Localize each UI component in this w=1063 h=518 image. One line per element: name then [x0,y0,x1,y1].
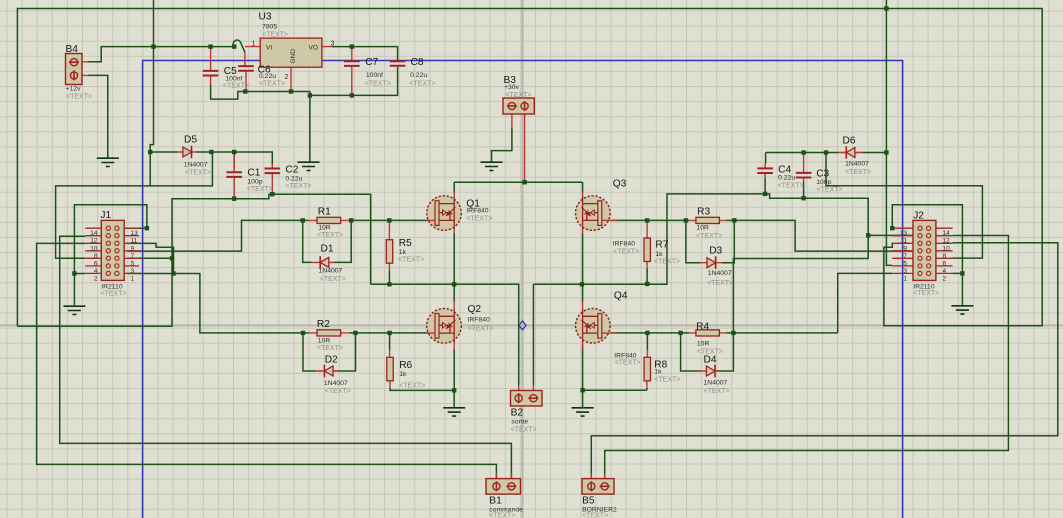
svg-text:2: 2 [94,275,98,282]
svg-text:C3: C3 [816,169,829,180]
svg-text:1k: 1k [399,249,407,256]
svg-text:GND: GND [290,49,297,64]
svg-text:<TEXT>: <TEXT> [399,383,425,390]
svg-text:C1: C1 [247,168,260,179]
svg-text:1N4007: 1N4007 [704,380,728,387]
svg-text:VI: VI [266,45,272,52]
svg-text:1N4007: 1N4007 [184,162,208,169]
svg-text:11: 11 [900,238,907,245]
svg-text:<TEXT>: <TEXT> [466,216,492,223]
svg-text:12: 12 [90,238,98,245]
svg-text:<TEXT>: <TEXT> [223,83,249,90]
svg-text:1k: 1k [399,371,407,378]
svg-text:0.22u: 0.22u [259,73,276,80]
svg-text:14: 14 [943,230,951,237]
svg-text:R5: R5 [399,238,412,249]
svg-text:100nf: 100nf [366,72,383,79]
svg-text:2: 2 [943,275,947,282]
svg-text:<TEXT>: <TEXT> [696,233,722,240]
svg-text:sortie: sortie [511,419,528,426]
svg-text:IRF840: IRF840 [613,241,636,248]
svg-text:IRF840: IRF840 [466,208,489,215]
svg-text:J1: J1 [100,210,111,221]
svg-text:13: 13 [131,230,139,237]
svg-text:D5: D5 [184,135,197,146]
svg-text:U3: U3 [259,12,272,23]
svg-text:0.22u: 0.22u [410,72,427,79]
svg-text:<TEXT>: <TEXT> [247,186,273,193]
svg-text:1N4007: 1N4007 [324,380,348,387]
svg-text:<TEXT>: <TEXT> [66,94,92,101]
svg-text:1N4007: 1N4007 [319,268,343,275]
svg-text:1: 1 [252,41,256,48]
svg-text:R2: R2 [317,319,330,330]
svg-text:7805: 7805 [262,24,277,31]
svg-text:<TEXT>: <TEXT> [505,92,531,99]
svg-text:<TEXT>: <TEXT> [582,513,608,518]
svg-text:12: 12 [943,238,951,245]
svg-text:<TEXT>: <TEXT> [259,81,285,88]
svg-text:8: 8 [943,253,947,260]
svg-text:R7: R7 [655,240,668,251]
svg-text:<TEXT>: <TEXT> [398,257,424,264]
svg-text:<TEXT>: <TEXT> [325,388,351,395]
svg-text:B5: B5 [582,496,595,507]
svg-text:IRF840: IRF840 [614,353,637,360]
svg-text:6: 6 [94,260,98,267]
svg-text:C2: C2 [285,165,298,176]
svg-text:<TEXT>: <TEXT> [262,32,288,39]
svg-text:<TEXT>: <TEXT> [185,170,211,177]
svg-text:R1: R1 [318,207,331,218]
svg-text:B2: B2 [511,408,524,419]
svg-text:<TEXT>: <TEXT> [697,349,723,356]
svg-text:Q3: Q3 [613,179,627,190]
svg-text:B1: B1 [489,496,502,507]
svg-text:4: 4 [943,268,947,275]
svg-text:3: 3 [131,268,135,275]
svg-text:5: 5 [903,260,907,267]
svg-text:1N4007: 1N4007 [845,161,869,168]
svg-text:<TEXT>: <TEXT> [817,187,843,194]
svg-text:<TEXT>: <TEXT> [654,377,680,384]
svg-text:D6: D6 [843,136,856,147]
svg-text:100nf: 100nf [225,76,242,83]
svg-text:7: 7 [131,253,135,260]
svg-text:1N4007: 1N4007 [708,270,732,277]
svg-text:<TEXT>: <TEXT> [468,326,494,333]
svg-text:R3: R3 [697,207,710,218]
svg-text:10R: 10R [318,338,331,345]
svg-text:13: 13 [900,230,908,237]
svg-text:10R: 10R [318,225,331,232]
svg-text:7: 7 [903,253,907,260]
svg-text:<TEXT>: <TEXT> [317,232,343,239]
svg-text:1k: 1k [655,251,663,258]
svg-text:<TEXT>: <TEXT> [100,291,126,298]
svg-text:0.22u: 0.22u [778,175,795,182]
svg-text:<TEXT>: <TEXT> [615,360,641,367]
svg-text:14: 14 [90,230,98,237]
svg-text:<TEXT>: <TEXT> [654,259,680,266]
svg-text:Q4: Q4 [614,291,628,302]
svg-text:D2: D2 [325,355,338,366]
svg-text:C7: C7 [365,57,378,68]
svg-text:<TEXT>: <TEXT> [320,276,346,283]
svg-text:<TEXT>: <TEXT> [845,169,871,176]
svg-text:+30v: +30v [504,84,520,91]
svg-text:4: 4 [94,268,98,275]
svg-text:10: 10 [943,245,951,252]
svg-text:IRF840: IRF840 [468,317,491,324]
svg-text:VO: VO [309,45,318,52]
svg-text:1k: 1k [654,369,662,376]
svg-text:Q2: Q2 [468,304,482,315]
svg-text:IR2110: IR2110 [101,284,123,291]
svg-text:J2: J2 [913,211,924,222]
svg-text:<TEXT>: <TEXT> [365,81,391,88]
svg-text:<TEXT>: <TEXT> [317,345,343,352]
svg-text:<TEXT>: <TEXT> [489,513,515,518]
svg-text:5: 5 [131,260,135,267]
svg-text:1: 1 [903,275,907,282]
svg-text:100p: 100p [247,179,262,186]
svg-text:9: 9 [903,245,907,252]
svg-text:<TEXT>: <TEXT> [707,280,733,287]
svg-text:C8: C8 [411,57,424,68]
svg-text:6: 6 [943,260,947,267]
svg-text:<TEXT>: <TEXT> [913,290,939,297]
svg-text:D3: D3 [709,246,722,257]
svg-text:<TEXT>: <TEXT> [511,427,537,434]
svg-text:100p: 100p [816,179,831,186]
svg-text:3: 3 [903,268,907,275]
svg-text:<TEXT>: <TEXT> [409,81,435,88]
svg-text:D4: D4 [704,355,717,366]
svg-text:<TEXT>: <TEXT> [704,388,730,395]
svg-text:1: 1 [131,275,135,282]
svg-text:10R: 10R [697,341,710,348]
svg-text:+12v: +12v [66,86,82,93]
svg-text:R4: R4 [696,322,709,333]
svg-text:B4: B4 [66,44,79,55]
svg-text:<TEXT>: <TEXT> [613,249,639,256]
svg-text:10R: 10R [697,225,710,232]
svg-text:R6: R6 [399,360,412,371]
svg-text:0.22u: 0.22u [285,176,302,183]
svg-text:10: 10 [90,245,98,252]
svg-text:2: 2 [285,74,289,81]
svg-text:D1: D1 [321,244,334,255]
svg-text:8: 8 [94,253,98,260]
svg-text:<TEXT>: <TEXT> [778,183,804,190]
svg-text:<TEXT>: <TEXT> [285,183,311,190]
svg-text:11: 11 [131,238,138,245]
svg-text:9: 9 [131,245,135,252]
svg-text:3: 3 [331,41,335,48]
